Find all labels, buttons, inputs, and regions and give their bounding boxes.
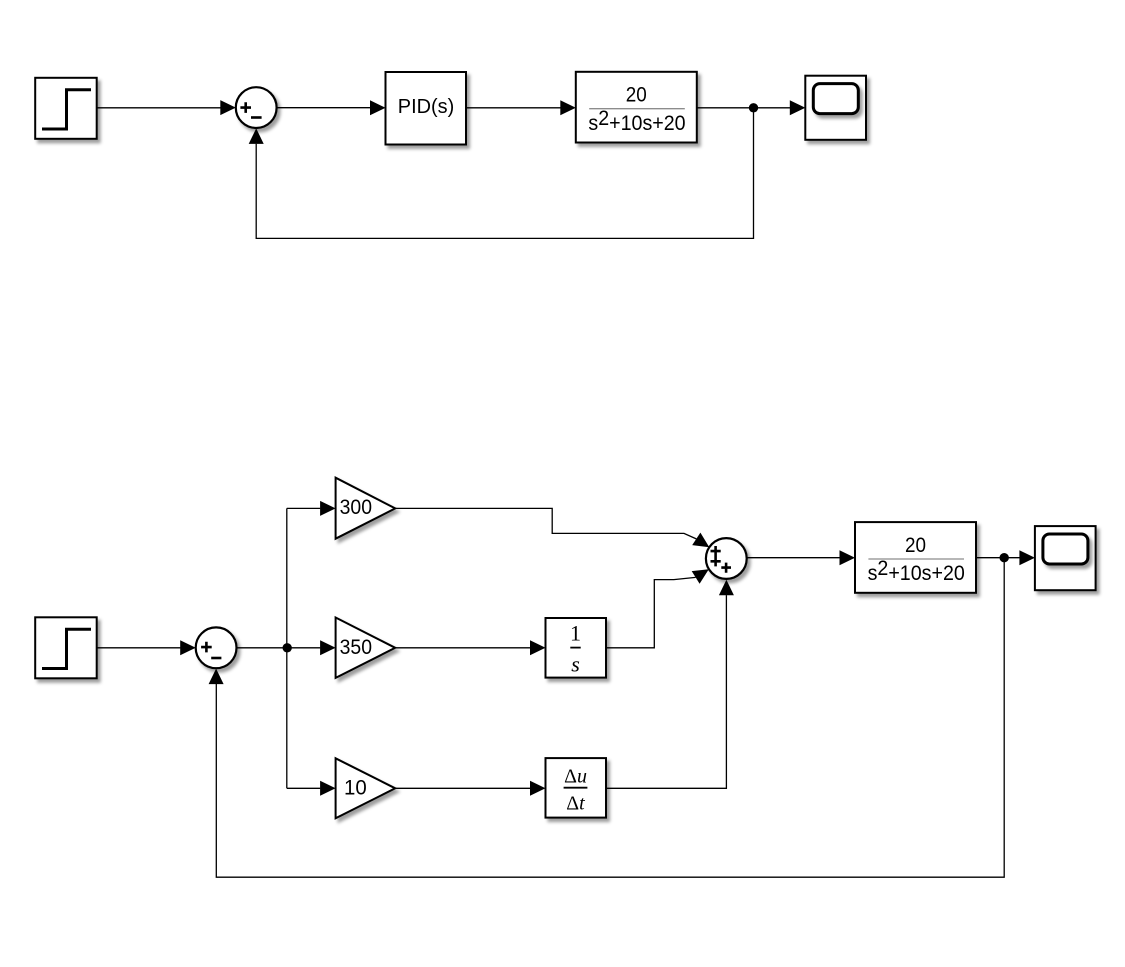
- arrowhead into scope 2: [1019, 550, 1035, 565]
- arrowhead into sum2: [180, 640, 196, 655]
- gain block 300 (triangle): [336, 478, 396, 539]
- PID controller block: [386, 72, 467, 145]
- branch junction dot: [283, 643, 292, 652]
- svg-text:300: 300: [340, 496, 372, 519]
- step source block (bottom): [35, 617, 96, 678]
- wire gain300 to sum3 (P path): [395, 508, 696, 539]
- wire step2 to sum2: [97, 647, 181, 649]
- wire integrator to sum3 (I path): [606, 577, 696, 647]
- svg-text:20: 20: [905, 533, 926, 557]
- wire sum3 to transfer fcn 2: [747, 557, 840, 559]
- wire transfer fcn 2 to scope 2 (with junction): [976, 557, 1020, 559]
- scope block (top): [805, 76, 866, 140]
- step source block (top): [35, 78, 96, 139]
- wire gain10 to derivative: [395, 787, 530, 789]
- svg-text:1: 1: [570, 621, 581, 646]
- arrowhead into sum1 bottom: [249, 128, 264, 144]
- wire step to sum1: [97, 107, 221, 109]
- arrowhead into derivative: [530, 781, 546, 796]
- junction dot (bottom): [1000, 553, 1009, 562]
- gain block 10 (triangle): [336, 758, 396, 818]
- arrowhead into integrator: [530, 640, 546, 655]
- arrowhead into sum1: [220, 100, 236, 115]
- wire derivative to sum3 (D path): [606, 595, 726, 788]
- arrowhead into PID: [370, 100, 386, 115]
- sum junction Sum1: [236, 87, 277, 128]
- svg-text:PID(s): PID(s): [398, 95, 454, 118]
- wire gain350 to integrator: [395, 647, 530, 649]
- scope block (bottom): [1035, 526, 1096, 590]
- svg-text:Δt: Δt: [566, 793, 585, 815]
- feedback wire (top loop): [256, 108, 753, 239]
- integrator block 1/s: [546, 618, 607, 678]
- wire branch to gain300: [287, 507, 321, 509]
- arrowhead into gain10: [320, 781, 336, 796]
- sum junction Sum3 (+++): [706, 538, 747, 579]
- sum junction Sum2: [196, 627, 237, 668]
- svg-text:s: s: [571, 652, 580, 677]
- arrowhead into scope 1: [790, 100, 806, 115]
- arrowhead into sum2 bottom: [209, 669, 224, 685]
- branch vertical wire: [286, 508, 288, 788]
- svg-text:20: 20: [626, 83, 647, 107]
- wire transfer fcn 1 to scope (with junction): [697, 107, 790, 109]
- arrowhead into sum3 lower-left: [692, 569, 709, 584]
- arrowhead into transfer fcn 2: [840, 550, 856, 565]
- derivative block du/dt: [546, 758, 607, 818]
- svg-text:Δu: Δu: [564, 766, 587, 788]
- arrowhead into gain300: [320, 501, 336, 516]
- wire PID to transfer fcn 1: [466, 107, 561, 109]
- gain block 350 (triangle): [336, 618, 396, 678]
- transfer function block 20/(s2+10s+20) (bottom): [855, 522, 976, 593]
- wire sum1 to PID: [277, 107, 371, 109]
- arrowhead into transfer fcn 1: [560, 100, 576, 115]
- arrowhead into sum3 bottom: [719, 580, 734, 596]
- junction dot (top): [749, 103, 758, 112]
- svg-text:10: 10: [344, 776, 367, 799]
- feedback wire (bottom loop): [216, 558, 1004, 878]
- svg-text:350: 350: [340, 636, 372, 659]
- wire sum2 to branch dot to gain350: [237, 647, 321, 649]
- arrowhead into gain350: [320, 640, 336, 655]
- transfer function block 20/(s2+10s+20) (top): [576, 72, 697, 143]
- arrowhead into sum3 upper-left: [692, 533, 709, 548]
- wire branch to gain10: [287, 787, 321, 789]
